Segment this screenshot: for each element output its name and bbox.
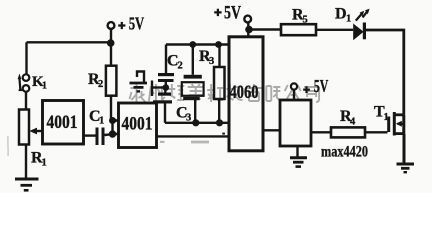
wire C2 top drop xyxy=(165,45,167,74)
gate U2 4001 box xyxy=(119,103,157,148)
resistor R5 xyxy=(281,24,316,35)
svg-text:1: 1 xyxy=(42,81,47,92)
wire R2 bottom xyxy=(110,96,112,121)
wiper arrow of R1 xyxy=(29,128,37,135)
wire C3 down to bottom rail xyxy=(164,103,166,122)
gate U1 4001 box xyxy=(43,101,84,145)
faint scan artifact left xyxy=(7,136,9,156)
svg-text:4060: 4060 xyxy=(230,82,259,103)
plus sign of +5V 2 xyxy=(214,9,221,16)
junction node R3 top xyxy=(215,41,222,48)
junction node XT top xyxy=(189,41,196,48)
svg-text:1: 1 xyxy=(384,112,389,123)
svg-text:5V: 5V xyxy=(314,76,329,96)
wire R3 top xyxy=(218,45,220,68)
ground under U3 driver xyxy=(290,158,307,167)
svg-text:5: 5 xyxy=(303,14,308,25)
crystal XT xyxy=(182,75,204,100)
svg-text:1: 1 xyxy=(346,14,351,25)
wire C1 to node B xyxy=(105,133,113,136)
wire 4060 to R5 xyxy=(249,28,282,30)
wire mid node to C3 xyxy=(164,88,166,93)
ground under T1 xyxy=(397,164,415,172)
wire 4060 +5V stub xyxy=(247,23,249,37)
svg-text:3: 3 xyxy=(209,56,214,67)
svg-text:5V: 5V xyxy=(129,13,145,33)
wire crystal top xyxy=(192,45,194,75)
wire 4060 to U3 driver xyxy=(263,129,280,131)
wire top-left rail xyxy=(27,41,112,43)
ground mid (C2/C3 node) xyxy=(130,83,148,91)
wire mid node to left stub xyxy=(152,86,166,88)
watermark row xyxy=(130,84,320,102)
wire staple to mid ground xyxy=(137,72,144,83)
wire +5V terminal 1 stub xyxy=(110,30,112,41)
wire R1 to ground xyxy=(25,145,27,179)
4060 lower pin bump xyxy=(222,133,225,135)
wire T1 body lead xyxy=(398,123,404,125)
wire D1 to right corner xyxy=(366,30,404,115)
wire crystal bottom xyxy=(194,100,196,123)
wire U3 +5V stub xyxy=(293,90,295,100)
svg-text:max4420: max4420 xyxy=(321,144,368,161)
wire node A into U2 xyxy=(113,119,119,121)
svg-text:D: D xyxy=(335,6,347,23)
wire C2 to mid node xyxy=(165,82,167,88)
scan speck marks xyxy=(160,141,209,144)
capacitor C3 xyxy=(153,93,172,104)
junction node C2/C3 xyxy=(163,84,170,91)
capacitor C2 xyxy=(158,73,174,82)
svg-text:2: 2 xyxy=(98,79,103,90)
resistor R2 xyxy=(106,66,117,96)
+5V terminal 3 xyxy=(291,83,297,89)
wire R5 to D1 xyxy=(316,29,353,31)
junction node 4060 top xyxy=(245,26,253,34)
wire bottom rail xyxy=(165,122,229,124)
ground under R1 xyxy=(15,179,39,190)
svg-text:1: 1 xyxy=(42,158,47,169)
LED D1 xyxy=(353,9,369,41)
wire rail to K1 xyxy=(25,42,27,74)
+5V terminal 1 xyxy=(108,22,115,29)
junction node R3 bottom xyxy=(216,119,223,126)
potentiometer R1 xyxy=(19,110,29,145)
wire R1 wiper to 4001 U1 input xyxy=(33,130,43,132)
MOSFET T1 xyxy=(387,112,402,136)
wire node A to node B vertical xyxy=(111,121,113,135)
svg-text:3: 3 xyxy=(186,113,191,124)
IC 4060 box xyxy=(229,37,263,151)
wire R3 bottom xyxy=(218,99,220,123)
wire stub vertical xyxy=(151,81,153,97)
plus sign of +5V 1 xyxy=(118,22,125,29)
resistor R4 xyxy=(331,127,365,137)
wire node B into U2 xyxy=(113,133,119,135)
svg-text:4001: 4001 xyxy=(122,114,153,135)
capacitor C1 xyxy=(96,128,105,146)
junction node XT bottom xyxy=(192,119,199,126)
junction node B xyxy=(109,130,116,137)
svg-text:4: 4 xyxy=(350,117,356,128)
resistor R3 xyxy=(214,67,225,99)
switch K1 xyxy=(19,74,29,91)
U2 input arrowheads xyxy=(114,118,119,123)
wire mid +5V rail C2/XT/R3 xyxy=(166,43,229,45)
junction node A xyxy=(109,117,116,124)
svg-text:5V: 5V xyxy=(224,2,241,23)
svg-text:4001: 4001 xyxy=(47,112,78,133)
wire R2 top xyxy=(110,42,112,66)
driver U3 max4420 box xyxy=(280,100,311,146)
svg-text:1: 1 xyxy=(99,116,104,127)
+5V terminal 2 xyxy=(244,16,251,23)
wire T1 source lead xyxy=(396,132,405,135)
wire R4 to T1 gate xyxy=(365,131,388,133)
plus sign of +5V 3 xyxy=(303,86,310,93)
wire K1 to R1 xyxy=(25,92,27,110)
wire U3 ground stem xyxy=(296,146,298,157)
wire U2 output to 4060 xyxy=(157,135,230,137)
wire U3 to R4 xyxy=(311,131,331,133)
svg-text:2: 2 xyxy=(178,61,183,72)
wire U1 output to C1 xyxy=(84,134,96,136)
wire T1 drain lead xyxy=(396,113,405,116)
wire T1 drain-source right vertical xyxy=(402,115,405,134)
junction node R2/+5V xyxy=(107,39,115,47)
wire T1 source to ground xyxy=(403,134,406,163)
